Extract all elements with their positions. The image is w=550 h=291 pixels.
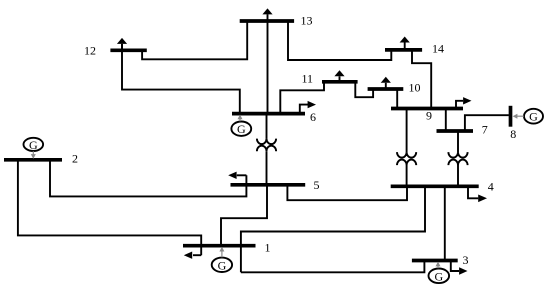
svg-text:1: 1	[265, 240, 271, 254]
bus 12	[110, 48, 146, 52]
wire 7-8	[465, 115, 509, 131]
wire 7-4 via transformer	[457, 131, 459, 186]
bus 2	[4, 158, 62, 162]
bus 13	[240, 19, 294, 23]
bus 3	[412, 259, 458, 263]
generator G2	[24, 138, 44, 159]
svg-text:4: 4	[488, 179, 494, 193]
wire 6-5 via transformer	[266, 114, 268, 185]
load arrow bus 3	[451, 261, 468, 275]
svg-text:2: 2	[72, 152, 78, 166]
wire 9-4 via transformer	[406, 109, 408, 187]
svg-text:3: 3	[463, 253, 469, 267]
bus 14	[385, 48, 422, 52]
svg-text:13: 13	[301, 14, 313, 28]
wire 11-10	[355, 82, 373, 97]
svg-text:7: 7	[482, 123, 488, 137]
wire 2-5	[50, 160, 246, 197]
bus 11	[322, 80, 358, 84]
svg-text:G: G	[237, 122, 246, 136]
wire 13-14	[288, 21, 391, 60]
generator G8	[513, 109, 543, 124]
svg-text:G: G	[29, 138, 38, 152]
load arrow bus 10	[381, 77, 391, 89]
wire 12-6	[122, 44, 240, 114]
svg-text:G: G	[218, 258, 227, 272]
wire 13-6	[267, 14, 269, 113]
wire 1-3	[241, 260, 425, 272]
generator G1	[212, 247, 232, 273]
svg-text:9: 9	[426, 109, 432, 123]
bus 4	[391, 184, 479, 188]
wire 5-4	[287, 185, 407, 200]
load arrow bus 6	[300, 101, 316, 114]
transformer 5-6	[257, 139, 276, 152]
wire 10-9	[396, 89, 398, 109]
wire 3-4	[444, 186, 446, 260]
svg-text:10: 10	[409, 81, 421, 95]
bus 5	[231, 183, 306, 187]
load arrow bus 9	[456, 97, 472, 108]
transformer 7-4	[448, 152, 467, 165]
wire 9-7	[445, 109, 447, 132]
bus 10	[368, 87, 404, 91]
wire 14-9	[412, 50, 431, 109]
generator G3	[429, 262, 450, 284]
bus 8	[509, 106, 513, 127]
svg-text:14: 14	[432, 41, 444, 55]
wire 2-1	[18, 160, 201, 255]
svg-text:5: 5	[314, 178, 320, 192]
svg-text:G: G	[434, 269, 443, 283]
bus 7	[437, 129, 474, 133]
load arrow bus 5	[228, 172, 246, 179]
wire 1-4	[241, 186, 425, 272]
wire 6-11	[280, 82, 324, 114]
load arrow bus 11	[334, 70, 344, 82]
wire 12-13	[142, 21, 247, 59]
load arrow bus 12	[117, 38, 127, 50]
load arrow bus 14	[400, 37, 410, 50]
svg-text:12: 12	[84, 44, 96, 58]
svg-text:11: 11	[302, 71, 314, 85]
load arrow bus 1	[184, 252, 201, 259]
transformer 9-4	[397, 152, 416, 165]
generator G6	[231, 115, 251, 137]
load arrow bus 13	[262, 8, 272, 14]
bus 9	[391, 107, 463, 111]
svg-text:G: G	[529, 110, 538, 124]
load arrow bus 4	[468, 186, 487, 202]
svg-text:8: 8	[510, 127, 516, 141]
bus 1	[183, 244, 256, 248]
wire 5-1	[221, 185, 267, 246]
bus 6	[232, 112, 305, 116]
svg-text:6: 6	[310, 110, 316, 124]
